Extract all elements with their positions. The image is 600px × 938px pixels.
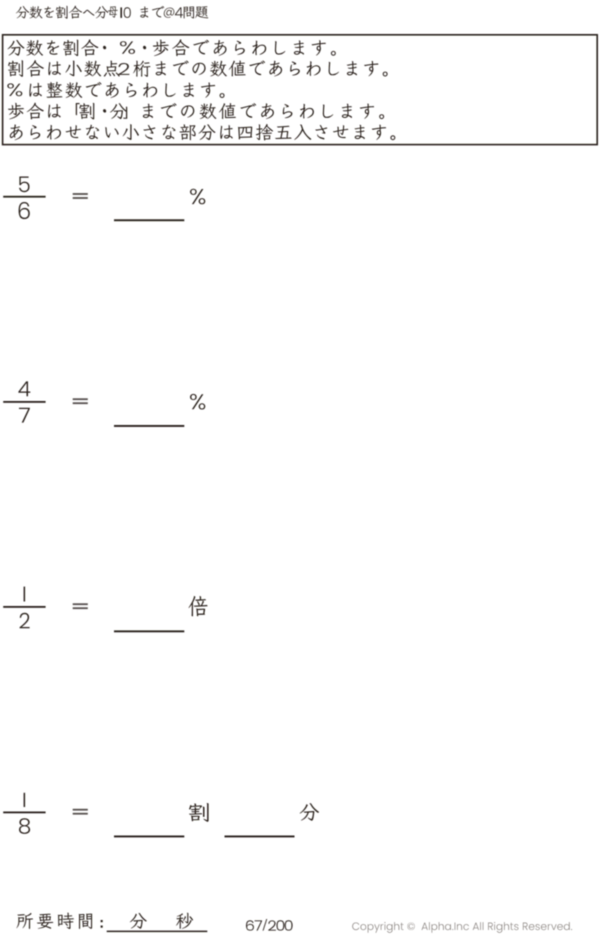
problem p4 equals sign <box>73 809 88 811</box>
instruction line 1 <box>8 40 25 56</box>
footer unit kanji fun <box>130 913 147 929</box>
problem p3 unit kanji bai <box>189 596 208 616</box>
problem p3 equals sign <box>73 603 88 605</box>
problem p3 fraction bar <box>3 606 45 608</box>
problem p3 answer blank <box>114 630 184 632</box>
instruction line 5 <box>10 125 23 141</box>
instruction box border <box>3 35 598 145</box>
problem p2 answer blank <box>114 425 184 427</box>
problem p2 percent unit <box>190 394 205 410</box>
instruction line 4 <box>8 103 24 120</box>
problem p1 equals sign <box>73 193 88 195</box>
footer unit kanji byou <box>176 913 193 929</box>
problem p4 unit kanji bu <box>300 803 319 820</box>
problem p4 fraction bar <box>3 812 45 814</box>
problem p1 fraction numerator 5 <box>19 177 30 193</box>
problem p2 fraction bar <box>3 401 45 403</box>
problem p4 unit kanji wari <box>189 803 209 822</box>
problem p1 fraction bar <box>3 196 45 198</box>
problem p2 equals sign <box>73 398 88 400</box>
footer copyright notice <box>352 923 359 931</box>
problem p4 second answer blank <box>225 836 295 838</box>
footer colon <box>101 920 103 922</box>
problem p1 fraction denominator 6 <box>19 202 30 219</box>
problem p4 fraction denominator 8 <box>19 818 30 834</box>
problem p3 fraction numerator 1 <box>24 587 26 602</box>
problem p2 fraction numerator 4 <box>18 381 30 396</box>
footer time label shoyou jikan <box>16 913 33 929</box>
instruction line 2 <box>8 60 23 77</box>
problem p2 fraction denominator 7 <box>19 408 30 423</box>
footer page number 67/200 <box>246 920 254 930</box>
footer time blank underline <box>107 931 208 933</box>
problem p3 fraction denominator 2 <box>20 613 30 629</box>
problem p4 fraction numerator 1 <box>24 793 26 807</box>
problem p4 answer blank <box>114 836 184 838</box>
header title text <box>16 6 29 18</box>
problem p1 percent unit <box>190 189 205 205</box>
instruction line 3 <box>7 83 22 96</box>
problem p1 answer blank <box>114 219 184 221</box>
